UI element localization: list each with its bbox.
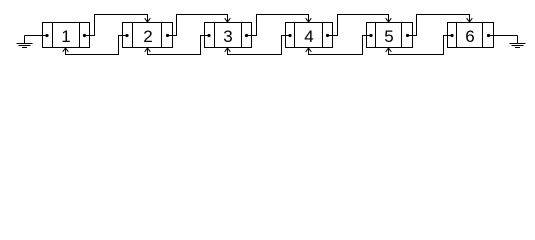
node 1 box (prev | data 1 | next) — [43, 23, 90, 48]
arrowhead into node 4 bottom — [306, 48, 312, 52]
wire prev pointer node 2 to node 1 (bottom bridge) — [66, 36, 128, 55]
node 1 next pointer dot — [83, 34, 86, 37]
wire next pointer node 1 to node 2 (top bridge) — [85, 15, 148, 36]
node 2 box (prev | data 2 | next) — [123, 23, 173, 48]
node 3 box (prev | data 3 | next) — [205, 23, 252, 48]
svg-text:5: 5 — [384, 27, 393, 46]
ground GND-right (NULL terminator of next chain) — [510, 36, 526, 48]
wire prev pointer node 6 to node 5 (bottom bridge) — [389, 36, 453, 55]
arrowhead into node 5 bottom — [386, 48, 392, 52]
node 4 box (prev | data 4 | next) — [286, 23, 333, 48]
arrowhead into node 2 bottom — [145, 48, 151, 52]
node 5 prev pointer dot — [369, 34, 372, 37]
node 4 next pointer dot — [326, 34, 329, 37]
wire next pointer node 3 to node 4 (top bridge) — [247, 15, 309, 36]
node 2 prev pointer dot — [125, 34, 128, 37]
arrowhead into node 3 top — [225, 18, 231, 22]
svg-text:3: 3 — [223, 27, 232, 46]
arrowhead into node 4 top — [306, 18, 312, 22]
node 6 next pointer dot — [487, 34, 490, 37]
node 6 box (prev | data 6 | next) — [448, 23, 494, 48]
ground GND-left (NULL terminator of prev chain) — [17, 36, 33, 48]
node 4 prev pointer dot — [288, 34, 291, 37]
wire node 6 next field to tail-null — [489, 35, 518, 37]
wire next pointer node 5 to node 6 (top bridge) — [408, 15, 470, 36]
svg-text:6: 6 — [465, 27, 474, 46]
arrowhead into node 2 top — [145, 18, 151, 22]
wire prev pointer node 5 to node 4 (bottom bridge) — [309, 36, 372, 55]
svg-text:1: 1 — [61, 27, 70, 46]
svg-text:2: 2 — [143, 27, 152, 46]
wire next pointer node 4 to node 5 (top bridge) — [328, 15, 389, 36]
arrowhead into node 5 top — [386, 18, 392, 22]
arrowhead into node 1 bottom — [63, 48, 69, 52]
node 5 next pointer dot — [406, 34, 409, 37]
wire head-null to node 1 prev field — [25, 35, 48, 37]
svg-text:4: 4 — [304, 27, 313, 46]
wire next pointer node 2 to node 3 (top bridge) — [168, 15, 228, 36]
arrowhead into node 6 top — [467, 18, 473, 22]
node 3 next pointer dot — [245, 34, 248, 37]
node 2 next pointer dot — [166, 34, 169, 37]
node 6 prev pointer dot — [450, 34, 453, 37]
wire prev pointer node 4 to node 3 (bottom bridge) — [228, 36, 291, 55]
node 5 box (prev | data 5 | next) — [367, 23, 413, 48]
node 1 prev pointer dot — [45, 34, 48, 37]
node 3 prev pointer dot — [207, 34, 210, 37]
arrowhead into node 3 bottom — [225, 48, 231, 52]
wire prev pointer node 3 to node 2 (bottom bridge) — [148, 36, 210, 55]
